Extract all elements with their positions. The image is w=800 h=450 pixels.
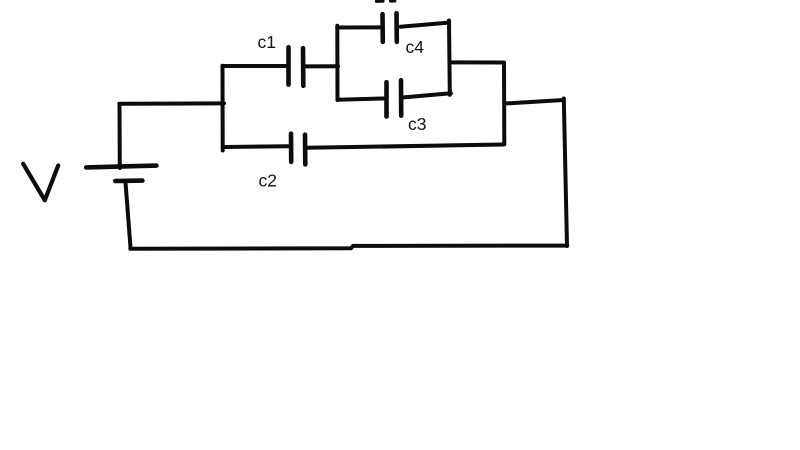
- wire node B branch to right-side vertical: [507, 100, 564, 103]
- svg-text:c2: c2: [259, 171, 277, 191]
- wire box to node B horizontal: [450, 60, 504, 64]
- battery V negative plate: [115, 178, 142, 183]
- wire node A to capacitor C2: [226, 144, 289, 149]
- wire bottom return: [130, 246, 567, 249]
- capacitor C4 right plate: [394, 13, 399, 42]
- capacitor C2 left plate: [289, 134, 294, 162]
- node A vertical bus: [221, 66, 225, 151]
- node B vertical bus: [502, 63, 506, 145]
- wire C2 to node B vertical: [308, 145, 504, 148]
- wire battery positive terminal up to top-left corner: [118, 104, 122, 168]
- capacitor C2 right plate: [303, 135, 308, 165]
- wire box top-left to capacitor C4: [337, 25, 379, 29]
- svg-text:c1: c1: [258, 32, 276, 52]
- wire right-side vertical down: [564, 99, 567, 247]
- voltage source label V: [23, 164, 58, 201]
- capacitor C3 left plate: [384, 82, 389, 116]
- battery V positive plate: [86, 166, 156, 168]
- wire top-left horizontal to node A: [119, 101, 224, 105]
- stray mark above C4 left plate: [377, 0, 384, 3]
- stray mark above C4 right plate: [391, 0, 395, 3]
- capacitor C4 left plate: [380, 14, 385, 42]
- wire parallel-box right vertical: [447, 21, 452, 95]
- wire battery negative terminal down: [126, 183, 131, 248]
- wire box bottom-left to capacitor C3: [338, 99, 384, 100]
- svg-text:c4: c4: [406, 37, 425, 57]
- wire C4 to box top-right corner: [401, 23, 448, 27]
- capacitor C1 left plate: [286, 47, 291, 84]
- wire C3 to box right vertical: [404, 93, 451, 97]
- capacitor C1 right plate: [301, 48, 306, 86]
- svg-text:c3: c3: [408, 114, 426, 134]
- capacitor C3 right plate: [399, 80, 404, 116]
- wire node A to capacitor C1: [223, 64, 287, 68]
- wire parallel-box left vertical: [335, 26, 339, 100]
- wire C1 to parallel-box left vertical: [305, 64, 338, 68]
